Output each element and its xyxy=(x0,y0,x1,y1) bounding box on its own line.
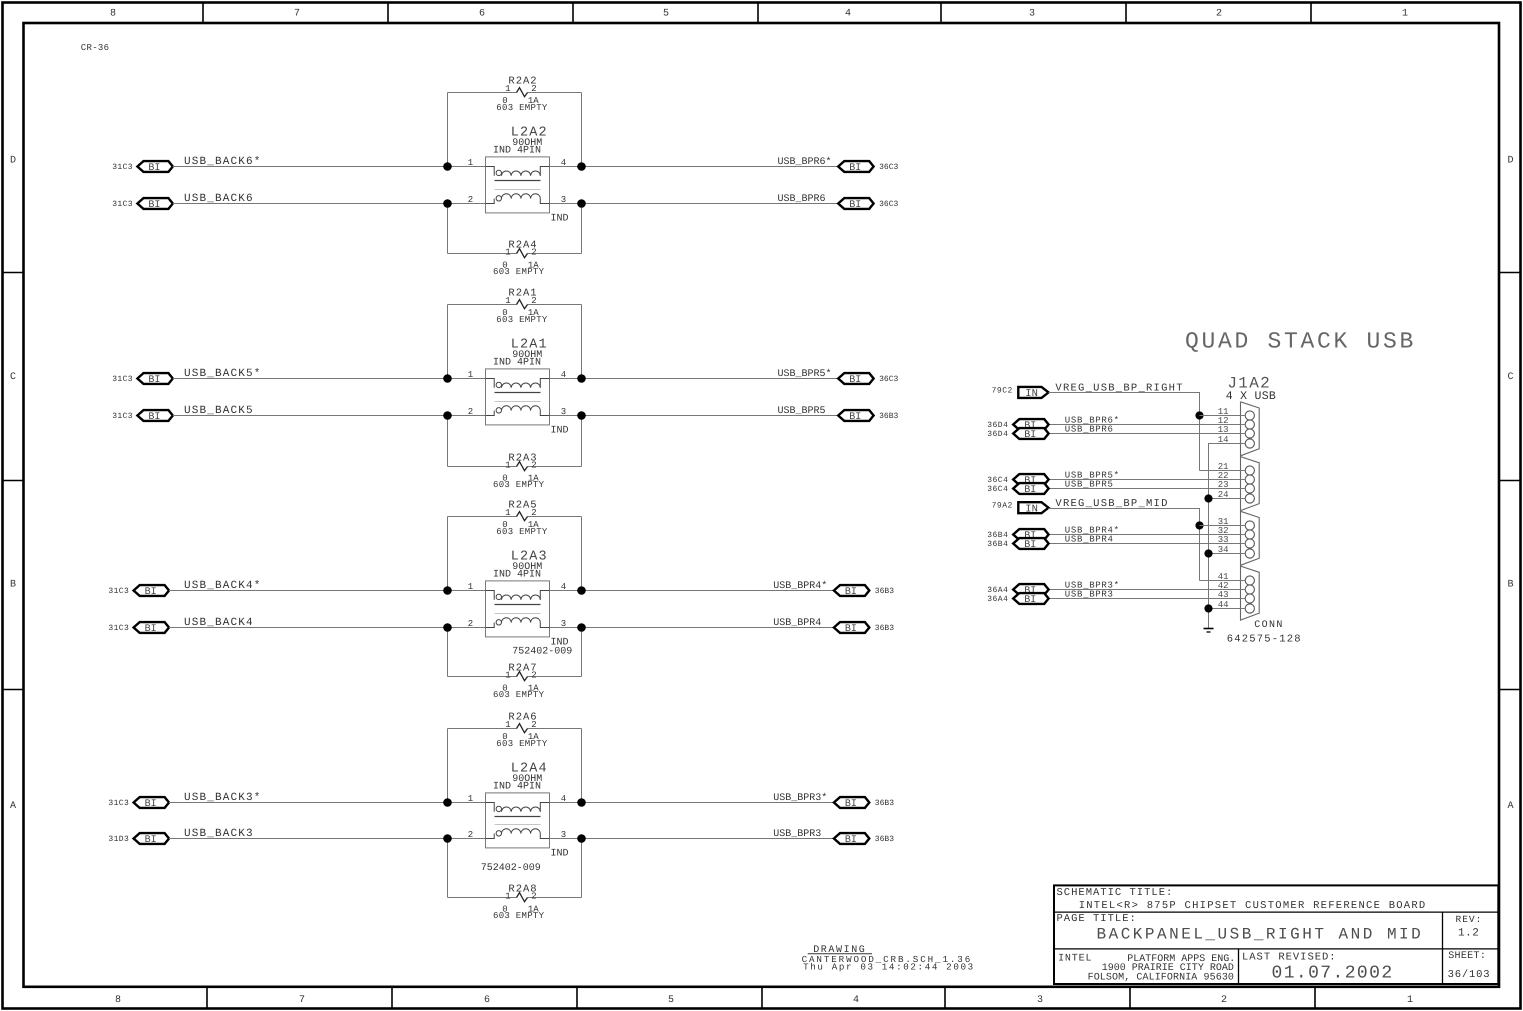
svg-text:BI: BI xyxy=(1024,430,1036,441)
sheet connector BI USB_BACK4* ref 31C3 (left) xyxy=(108,585,169,598)
svg-text:USB_BACK5: USB_BACK5 xyxy=(184,405,254,417)
wire pin 11 from VREG vertical xyxy=(1200,415,1246,417)
svg-text:BI: BI xyxy=(145,587,157,598)
svg-text:USB_BPR6*: USB_BPR6* xyxy=(778,156,832,168)
sheet connector BI USB_BPR4 ref 36B4 (J1A2 side) xyxy=(987,535,1113,552)
svg-text:1: 1 xyxy=(505,248,510,258)
svg-text:USB_BACK3: USB_BACK3 xyxy=(184,828,254,840)
wire net USB_BACK6 xyxy=(173,193,838,205)
svg-text:BI: BI xyxy=(845,835,857,846)
svg-text:1: 1 xyxy=(505,508,510,518)
svg-text:B: B xyxy=(10,579,16,590)
svg-text:BI: BI xyxy=(849,375,861,386)
svg-text:642575-128: 642575-128 xyxy=(1227,633,1302,645)
wire pin 12 xyxy=(1049,424,1246,426)
sheet connector BI USB_BACK3* ref 31C3 (left) xyxy=(108,797,169,810)
svg-text:8: 8 xyxy=(115,995,121,1006)
svg-text:A: A xyxy=(1507,801,1513,812)
svg-text:BI: BI xyxy=(1024,485,1036,496)
svg-text:C: C xyxy=(10,372,16,383)
sheet connector BI USB_BACK5* ref 31C3 (left) xyxy=(112,373,173,386)
resistor R2A2 0 ohm 603 EMPTY xyxy=(496,76,548,114)
svg-text:IND 4PIN: IND 4PIN xyxy=(493,782,541,793)
junction L2A3 pin1 xyxy=(443,586,452,595)
svg-text:USB_BACK4: USB_BACK4 xyxy=(184,617,254,629)
sheet connector IN VREG_USB_BP_RIGHT ref 79C2 xyxy=(992,387,1049,401)
svg-text:IND 4PIN: IND 4PIN xyxy=(493,358,541,369)
svg-text:31D3: 31D3 xyxy=(108,835,129,844)
sheet connector BI USB_BACK6 ref 36C3 (right) xyxy=(838,198,898,211)
svg-text:31C3: 31C3 xyxy=(108,799,129,808)
svg-text:3: 3 xyxy=(561,407,566,417)
svg-text:2: 2 xyxy=(531,892,536,902)
svg-text:1: 1 xyxy=(505,720,510,730)
junction ground bus pin 34 xyxy=(1204,549,1212,557)
svg-text:IND: IND xyxy=(551,426,569,437)
title block xyxy=(1054,885,1498,984)
resistor R2A6 0 ohm 603 EMPTY xyxy=(496,712,548,750)
svg-text:36B4: 36B4 xyxy=(987,540,1008,549)
wire resistor R2A4 bypass loop xyxy=(448,204,582,254)
sheet connector BI USB_BACK3 ref 31D3 (left) xyxy=(108,833,169,846)
svg-text:BI: BI xyxy=(145,624,157,635)
value label 752402-009 for L2A3 xyxy=(512,647,572,658)
svg-text:2: 2 xyxy=(468,619,473,629)
wire resistor R2A3 bypass loop xyxy=(448,416,582,467)
label CR-36 sheet id xyxy=(81,43,110,53)
svg-text:2: 2 xyxy=(531,296,536,306)
wire pin 21 from VREG vertical xyxy=(1200,470,1246,472)
svg-text:603 EMPTY: 603 EMPTY xyxy=(493,911,545,921)
svg-text:2: 2 xyxy=(1216,9,1222,20)
svg-text:BI: BI xyxy=(845,799,857,810)
svg-text:USB_BACK3*: USB_BACK3* xyxy=(184,792,262,804)
svg-text:3: 3 xyxy=(1037,995,1043,1006)
svg-text:36C3: 36C3 xyxy=(879,163,898,172)
svg-text:USB_BPR3: USB_BPR3 xyxy=(773,829,821,840)
svg-text:1: 1 xyxy=(505,671,510,681)
junction L2A1 pin2 xyxy=(443,411,452,420)
svg-text:BI: BI xyxy=(845,624,857,635)
resistor R2A8 0 ohm 603 EMPTY xyxy=(493,884,545,922)
svg-text:36A4: 36A4 xyxy=(987,595,1008,604)
wire net USB_BACK3* xyxy=(169,792,834,804)
svg-text:79C2: 79C2 xyxy=(992,387,1013,396)
wire resistor R2A1 bypass loop xyxy=(448,305,582,379)
svg-text:1: 1 xyxy=(505,461,510,471)
svg-text:2: 2 xyxy=(531,84,536,94)
svg-text:603 EMPTY: 603 EMPTY xyxy=(493,480,545,490)
svg-text:31C3: 31C3 xyxy=(108,587,129,596)
sheet connector BI USB_BACK4 ref 36B3 (right) xyxy=(834,622,894,635)
svg-text:1.2: 1.2 xyxy=(1458,928,1479,940)
label DRAWING note xyxy=(802,945,975,972)
sheet connector BI USB_BPR5* ref 36C4 (J1A2 side) xyxy=(987,471,1120,488)
wire resistor R2A2 bypass loop xyxy=(448,93,582,167)
svg-text:603 EMPTY: 603 EMPTY xyxy=(493,690,545,700)
svg-text:REV:: REV: xyxy=(1456,914,1483,925)
svg-text:BI: BI xyxy=(148,200,160,211)
sheet connector BI USB_BACK6* ref 36C3 (right) xyxy=(838,161,898,174)
svg-text:BI: BI xyxy=(145,835,157,846)
svg-text:CONN: CONN xyxy=(1254,620,1284,631)
wire pin 13 xyxy=(1049,433,1246,435)
svg-text:2: 2 xyxy=(531,461,536,471)
junction L2A1 pin4 xyxy=(577,374,586,383)
sheet connector BI USB_BACK5 ref 31C3 (left) xyxy=(112,410,173,423)
svg-text:603 EMPTY: 603 EMPTY xyxy=(496,739,548,749)
svg-text:USB_BACK5*: USB_BACK5* xyxy=(184,368,262,380)
sheet connector BI USB_BPR3 ref 36A4 (J1A2 side) xyxy=(987,590,1113,607)
svg-text:USB_BPR4: USB_BPR4 xyxy=(1065,535,1114,545)
sheet connector BI USB_BACK4* ref 36B3 (right) xyxy=(834,585,894,598)
svg-text:Thu Apr 03 14:02:44 2003: Thu Apr 03 14:02:44 2003 xyxy=(803,962,975,973)
svg-text:IND 4PIN: IND 4PIN xyxy=(493,570,541,581)
svg-text:36C4: 36C4 xyxy=(987,476,1008,485)
svg-text:2: 2 xyxy=(1221,995,1227,1006)
svg-text:2: 2 xyxy=(468,195,473,205)
sheet connector BI USB_BACK6* ref 31C3 (left) xyxy=(112,161,173,174)
svg-text:2: 2 xyxy=(531,720,536,730)
svg-text:31C3: 31C3 xyxy=(112,163,133,172)
svg-text:SCHEMATIC TITLE:: SCHEMATIC TITLE: xyxy=(1057,887,1174,899)
svg-text:IN: IN xyxy=(1025,388,1038,400)
svg-text:PAGE TITLE:: PAGE TITLE: xyxy=(1057,913,1137,925)
wire net USB_BACK5 xyxy=(173,405,838,417)
junction L2A3 pin4 xyxy=(577,586,586,595)
svg-text:603 EMPTY: 603 EMPTY xyxy=(496,103,548,113)
svg-text:IND: IND xyxy=(551,849,569,860)
svg-text:BI: BI xyxy=(849,412,861,423)
svg-text:2: 2 xyxy=(468,830,473,840)
junction L2A2 pin1 xyxy=(443,162,452,171)
svg-text:36B3: 36B3 xyxy=(875,587,894,596)
svg-text:2: 2 xyxy=(468,407,473,417)
svg-text:1: 1 xyxy=(468,794,473,804)
svg-text:36C3: 36C3 xyxy=(879,375,898,384)
junction VREG_USB_BP_RIGHT pin 11 xyxy=(1195,411,1203,419)
resistor R2A1 0 ohm 603 EMPTY xyxy=(496,288,548,326)
svg-text:BACKPANEL_USB_RIGHT AND MID: BACKPANEL_USB_RIGHT AND MID xyxy=(1097,926,1424,944)
svg-text:USB_BPR4: USB_BPR4 xyxy=(773,618,821,629)
inductor L2A1 90OHM IND 4PIN xyxy=(468,338,569,437)
svg-text:4: 4 xyxy=(561,794,566,804)
resistor R2A3 0 ohm 603 EMPTY xyxy=(493,453,545,491)
inductor L2A3 90OHM IND 4PIN xyxy=(468,550,569,649)
svg-text:31C3: 31C3 xyxy=(112,375,133,384)
svg-text:2: 2 xyxy=(531,671,536,681)
svg-text:QUAD STACK USB: QUAD STACK USB xyxy=(1185,329,1416,355)
svg-text:01.07.2002: 01.07.2002 xyxy=(1272,963,1394,983)
sheet connector BI USB_BACK5 ref 36B3 (right) xyxy=(838,410,898,423)
wire ground bus pins 14,24,34,44 xyxy=(1209,444,1246,628)
wire pin 31 from VREG vertical xyxy=(1200,525,1246,527)
svg-text:BI: BI xyxy=(849,200,861,211)
svg-text:603 EMPTY: 603 EMPTY xyxy=(496,315,548,325)
svg-text:603 EMPTY: 603 EMPTY xyxy=(493,267,545,277)
svg-text:BI: BI xyxy=(148,375,160,386)
svg-text:BI: BI xyxy=(1024,540,1036,551)
svg-text:36/103: 36/103 xyxy=(1448,969,1491,981)
svg-text:31C3: 31C3 xyxy=(112,200,133,209)
wire pin 22 xyxy=(1049,479,1246,481)
junction L2A4 pin2 xyxy=(443,834,452,843)
sheet connector BI USB_BACK6 ref 31C3 (left) xyxy=(112,198,173,211)
junction L2A2 pin3 xyxy=(577,199,586,208)
inductor L2A4 90OHM IND 4PIN xyxy=(468,762,569,860)
svg-text:36B4: 36B4 xyxy=(987,531,1008,540)
svg-text:BI: BI xyxy=(148,163,160,174)
ground xyxy=(1204,629,1214,633)
svg-text:1: 1 xyxy=(1407,995,1413,1006)
svg-text:4: 4 xyxy=(853,995,859,1006)
resistor R2A4 0 ohm 603 EMPTY xyxy=(493,240,545,278)
svg-text:2: 2 xyxy=(531,248,536,258)
svg-text:36A4: 36A4 xyxy=(987,586,1008,595)
svg-text:36B3: 36B3 xyxy=(875,835,894,844)
wire resistor R2A7 bypass loop xyxy=(448,628,582,677)
svg-text:BI: BI xyxy=(148,412,160,423)
svg-text:3: 3 xyxy=(561,830,566,840)
wire net USB_BACK5* xyxy=(173,368,838,380)
wire pin 43 xyxy=(1049,598,1246,600)
svg-text:USB_BPR6: USB_BPR6 xyxy=(778,194,826,205)
svg-text:LAST REVISED:: LAST REVISED: xyxy=(1242,952,1337,964)
sheet connector BI USB_BACK5* ref 36C3 (right) xyxy=(838,373,898,386)
wire pin 42 xyxy=(1049,589,1246,591)
svg-text:D: D xyxy=(1507,156,1513,167)
junction ground bus pin 44 xyxy=(1204,604,1212,612)
connector J1A2 4 X USB xyxy=(1218,374,1302,645)
sheet connector BI USB_BPR6 ref 36D4 (J1A2 side) xyxy=(987,425,1113,442)
junction ground bus pin 24 xyxy=(1204,494,1212,502)
junction L2A4 pin1 xyxy=(443,798,452,807)
svg-text:1: 1 xyxy=(468,158,473,168)
svg-text:IND: IND xyxy=(551,214,569,225)
svg-text:USB_BPR4*: USB_BPR4* xyxy=(773,580,827,592)
svg-text:6: 6 xyxy=(479,9,485,20)
svg-text:D: D xyxy=(10,156,16,167)
svg-text:36D4: 36D4 xyxy=(987,430,1008,439)
wire net USB_BACK4 xyxy=(169,617,834,629)
svg-text:A: A xyxy=(10,801,16,812)
svg-text:1: 1 xyxy=(1402,9,1408,20)
sheet connector BI USB_BACK3* ref 36B3 (right) xyxy=(834,797,894,810)
junction L2A1 pin1 xyxy=(443,374,452,383)
svg-text:603 EMPTY: 603 EMPTY xyxy=(496,527,548,537)
svg-text:79A2: 79A2 xyxy=(992,502,1013,511)
junction L2A1 pin3 xyxy=(577,411,586,420)
svg-text:USB_BACK6: USB_BACK6 xyxy=(184,193,254,205)
svg-text:INTEL<R> 875P CHIPSET CUSTOMER: INTEL<R> 875P CHIPSET CUSTOMER REFERENCE… xyxy=(1079,900,1427,912)
junction L2A4 pin4 xyxy=(577,798,586,807)
junction VREG_USB_BP_MID pin 31 xyxy=(1195,521,1203,529)
svg-text:USB_BPR5: USB_BPR5 xyxy=(1065,480,1114,490)
svg-text:1: 1 xyxy=(505,892,510,902)
junction L2A3 pin2 xyxy=(443,623,452,632)
svg-text:36B3: 36B3 xyxy=(875,799,894,808)
svg-text:INTEL: INTEL xyxy=(1058,953,1092,964)
svg-text:4: 4 xyxy=(561,582,566,592)
wire pin 32 xyxy=(1049,534,1246,536)
svg-text:2: 2 xyxy=(531,508,536,518)
svg-text:36B3: 36B3 xyxy=(875,624,894,633)
svg-text:USB_BPR5*: USB_BPR5* xyxy=(778,368,832,380)
svg-text:IN: IN xyxy=(1025,504,1038,516)
svg-text:3: 3 xyxy=(1029,9,1035,20)
svg-text:752402-009: 752402-009 xyxy=(512,647,572,658)
wire net USB_BACK4* xyxy=(169,580,834,592)
resistor R2A7 0 ohm 603 EMPTY xyxy=(493,663,545,701)
wire net VREG_USB_BP_MID to pins 31,41 xyxy=(1049,498,1200,581)
svg-text:31C3: 31C3 xyxy=(108,624,129,633)
svg-text:6: 6 xyxy=(484,995,490,1006)
svg-text:1: 1 xyxy=(468,370,473,380)
svg-text:3: 3 xyxy=(561,619,566,629)
svg-text:4: 4 xyxy=(845,9,851,20)
svg-text:5: 5 xyxy=(668,995,674,1006)
svg-text:B: B xyxy=(1507,579,1513,590)
sheet connector IN VREG_USB_BP_MID ref 79A2 xyxy=(992,502,1049,516)
svg-text:1: 1 xyxy=(505,296,510,306)
sheet connector BI USB_BPR6* ref 36D4 (J1A2 side) xyxy=(987,416,1120,433)
svg-text:USB_BPR3: USB_BPR3 xyxy=(1065,590,1114,600)
sheet connector BI USB_BACK3 ref 36B3 (right) xyxy=(834,833,894,846)
wire resistor R2A6 bypass loop xyxy=(448,729,582,803)
svg-text:USB_BACK6*: USB_BACK6* xyxy=(184,156,262,168)
wire net VREG_USB_BP_RIGHT to pins 11,21 xyxy=(1049,382,1200,470)
junction L2A2 pin4 xyxy=(577,162,586,171)
wire net USB_BACK3 xyxy=(169,828,834,840)
svg-text:C: C xyxy=(1507,372,1513,383)
wire resistor R2A8 bypass loop xyxy=(448,839,582,898)
svg-text:IND 4PIN: IND 4PIN xyxy=(493,146,541,157)
svg-text:4 X USB: 4 X USB xyxy=(1226,390,1276,403)
svg-text:5: 5 xyxy=(663,9,669,20)
svg-text:752402-009: 752402-009 xyxy=(481,863,541,874)
svg-text:BI: BI xyxy=(849,163,861,174)
junction L2A2 pin2 xyxy=(443,199,452,208)
svg-text:USB_BACK4*: USB_BACK4* xyxy=(184,580,262,592)
sheet connector BI USB_BPR4* ref 36B4 (J1A2 side) xyxy=(987,526,1120,543)
value label 752402-009 for L2A4 xyxy=(481,863,541,874)
svg-text:7: 7 xyxy=(294,9,300,20)
svg-text:4: 4 xyxy=(561,158,566,168)
wire pin 23 xyxy=(1049,488,1246,490)
sheet connector BI USB_BPR5 ref 36C4 (J1A2 side) xyxy=(987,480,1113,497)
sheet connector BI USB_BPR3* ref 36A4 (J1A2 side) xyxy=(987,581,1120,598)
wire pin 41 from VREG vertical xyxy=(1200,580,1246,582)
inductor L2A2 90OHM IND 4PIN xyxy=(468,126,569,225)
label QUAD STACK USB xyxy=(1185,329,1416,355)
svg-text:36C4: 36C4 xyxy=(987,485,1008,494)
svg-text:36D4: 36D4 xyxy=(987,421,1008,430)
svg-text:36B3: 36B3 xyxy=(879,412,898,421)
sheet connector BI USB_BACK4 ref 31C3 (left) xyxy=(108,622,169,635)
junction L2A4 pin3 xyxy=(577,834,586,843)
wire pin 33 xyxy=(1049,543,1246,545)
svg-text:BI: BI xyxy=(145,799,157,810)
svg-text:BI: BI xyxy=(845,587,857,598)
svg-text:3: 3 xyxy=(561,195,566,205)
svg-text:31C3: 31C3 xyxy=(112,412,133,421)
svg-text:36C3: 36C3 xyxy=(879,200,898,209)
svg-text:4: 4 xyxy=(561,370,566,380)
svg-text:FOLSOM, CALIFORNIA 95630: FOLSOM, CALIFORNIA 95630 xyxy=(1088,973,1234,984)
svg-text:USB_BPR6: USB_BPR6 xyxy=(1065,425,1114,435)
svg-text:8: 8 xyxy=(110,9,116,20)
svg-text:1: 1 xyxy=(468,582,473,592)
wire resistor R2A5 bypass loop xyxy=(448,517,582,591)
wire net USB_BACK6* xyxy=(173,156,838,168)
resistor R2A5 0 ohm 603 EMPTY xyxy=(496,500,548,538)
svg-text:BI: BI xyxy=(1024,595,1036,606)
junction L2A3 pin3 xyxy=(577,623,586,632)
svg-text:1: 1 xyxy=(505,84,510,94)
svg-text:7: 7 xyxy=(299,995,305,1006)
svg-text:CR-36: CR-36 xyxy=(81,43,110,53)
svg-text:USB_BPR3*: USB_BPR3* xyxy=(773,792,827,804)
svg-text:SHEET:: SHEET: xyxy=(1448,951,1486,962)
svg-text:USB_BPR5: USB_BPR5 xyxy=(778,406,826,417)
